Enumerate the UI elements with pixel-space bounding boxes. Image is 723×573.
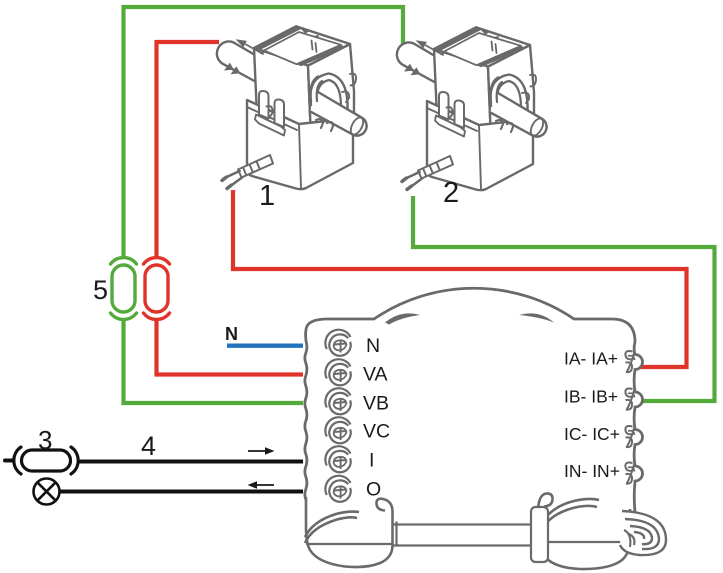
dark rim along inner lower-right edge [297,45,346,67]
CT base box [247,100,353,189]
latch clip prongs on base [259,91,269,119]
CT secondary twisted pair leads [238,155,273,178]
CT front-right face [308,44,354,138]
terminal screw VC [325,417,350,443]
svg-text:N: N [225,324,238,344]
rounded rim contour line [261,36,318,53]
wire: black return line from O terminal to lamp [60,490,304,494]
clip ear lower right [342,92,349,102]
wire: green CT2 secondary loop to IB- IB+ terminals [413,196,715,401]
terminal screw I [325,446,350,472]
meter rail clip tab [531,507,548,562]
fuse F3 (item 3, horizontal on load line) [5,447,78,474]
meter corner scroll detail [620,511,666,555]
double chevron arrow under conductor [224,63,234,71]
clip ear upper right [350,74,356,86]
CT top face [254,26,350,65]
right terminal screw IN [625,463,634,485]
meter DIN rail [393,522,536,547]
window divider ticks [312,41,317,53]
core arch opening [310,74,347,113]
fuse F1 (green, phase B) [111,258,137,320]
svg-text:3: 3 [38,425,52,455]
right terminal screw IA [625,351,634,373]
terminal screw O [325,476,350,502]
wire: green phase-B run from fuse 5 up and over to CT2 primary [124,7,404,258]
svg-text:I: I [369,450,374,472]
meter left foot (DIN clip) [305,497,393,567]
energy meter body outline [305,288,643,512]
fuse F2 (red, phase A) [144,258,170,320]
svg-text:N: N [366,335,380,357]
CT front-left face [254,48,311,138]
meter right foot (DIN clip) [538,493,660,569]
current transformer CT2 [397,27,547,190]
wire: green fuse output to VB terminal [124,318,304,403]
terminal screw VB [325,388,350,414]
wire: red phase-A run from fuse 5 up to CT1 primary [157,42,220,258]
svg-text:VA: VA [363,364,388,386]
wire: blue neutral to N terminal [227,344,303,348]
svg-text:IC- IC+: IC- IC+ [564,424,620,444]
direction arrow on conductor [246,45,263,55]
right terminal screw IB [625,389,634,411]
core window on top face [264,32,341,64]
terminal screw VA [325,359,350,385]
svg-text:2: 2 [443,177,459,209]
svg-text:VC: VC [363,421,390,443]
dome eyebrow marks [385,313,420,324]
svg-text:4: 4 [141,431,156,461]
current transformer CT1 [217,26,367,189]
wire: black load line to I terminal [79,460,303,464]
terminal screw N [325,330,350,356]
svg-text:VB: VB [363,393,389,415]
conductor tube emerging from arch [310,92,367,136]
current-flow arrow (left, above O wire) [248,481,275,489]
dark rim corner wedge [296,26,310,33]
svg-text:1: 1 [259,180,275,212]
dark rim along top-left edge [254,26,302,50]
wire: red CT1 secondary loop to IA- IA+ terminals [233,190,687,367]
latch base bar [255,115,285,136]
clip hooks below arch [316,119,333,131]
svg-text:O: O [366,479,381,501]
svg-text:IN- IN+: IN- IN+ [564,461,620,481]
right terminal screw IC [625,426,634,448]
current-flow arrow (right, above I wire) [248,447,275,455]
svg-text:5: 5 [93,275,108,305]
primary conductor tube through CT [217,42,367,136]
arch left leg over tube [310,77,318,103]
svg-text:IB- IB+: IB- IB+ [564,387,618,407]
svg-text:IA- IA+: IA- IA+ [564,349,618,369]
lamp / load symbol [34,479,60,505]
wire: red fuse output to VA terminal [157,318,304,375]
